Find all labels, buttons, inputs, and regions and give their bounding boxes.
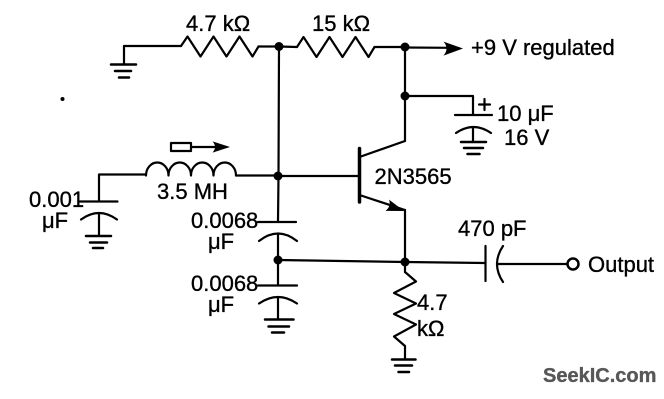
capacitor C4 10 uF polarized — [455, 115, 492, 133]
wire node G to node F — [278, 260, 405, 262]
wire node C down to collector — [404, 96, 406, 141]
tuning arrow of L1 — [191, 141, 230, 152]
wire R2 to node B — [375, 46, 406, 48]
stray dot mark — [61, 97, 65, 101]
capacitor C1 0.001 uF — [80, 202, 118, 220]
wire node G to C3 — [277, 260, 279, 284]
svg-text:kΩ: kΩ — [417, 316, 444, 341]
resistor R3 4.7 kOhm vertical — [394, 272, 416, 346]
wire node A down to node E and C2 — [278, 47, 279, 222]
output terminal circle — [568, 259, 579, 270]
ground G2 below C4 — [461, 142, 486, 154]
svg-text:15 kΩ: 15 kΩ — [312, 11, 370, 36]
node C junction (405,96) — [401, 92, 410, 101]
wire R3 to ground — [404, 346, 406, 359]
svg-text:2N3565: 2N3565 — [375, 164, 452, 189]
svg-text:μF: μF — [208, 229, 234, 254]
wire L1 left to C1 — [99, 175, 146, 201]
svg-text:470 pF: 470 pF — [458, 216, 527, 241]
wire C2 to node G — [277, 235, 279, 261]
wire node C to capacitor C4 — [405, 96, 473, 114]
svg-text:3.5 MH: 3.5 MH — [157, 179, 228, 204]
svg-text:16 V: 16 V — [504, 125, 550, 150]
node E junction (278,176) — [274, 172, 283, 181]
wire R1 to node A — [259, 45, 280, 47]
wire L1 to node E — [236, 174, 278, 176]
svg-text:4.7: 4.7 — [417, 290, 448, 315]
wire emitter down to node F — [404, 210, 406, 262]
svg-text:Output: Output — [588, 252, 654, 277]
svg-text:μF: μF — [208, 292, 234, 317]
svg-text:4.7 kΩ: 4.7 kΩ — [186, 11, 250, 36]
wire node F to C5 — [405, 262, 485, 263]
wire C5 to output terminal — [498, 263, 568, 265]
node B junction (405,47) — [401, 43, 410, 52]
transistor Q1 2N3565 — [360, 141, 406, 211]
ground G4 below C3 — [265, 320, 294, 333]
wire ground to R1 — [124, 45, 181, 47]
inductor L1 — [146, 163, 236, 176]
wire C1 to ground — [98, 214, 100, 236]
capacitor C2 0.0068 uF — [258, 222, 297, 241]
svg-text:SeekIC.com: SeekIC.com — [543, 365, 656, 387]
ground G1 top-left — [111, 46, 136, 78]
slug tuning rectangle of L1 — [171, 143, 191, 151]
wire node A to R2 — [279, 45, 297, 48]
node G junction (278,260) — [274, 256, 283, 265]
resistor R1 4.7 kOhm — [181, 37, 259, 57]
node F junction (405,262) — [401, 258, 410, 267]
svg-text:+9 V regulated: +9 V regulated — [471, 35, 615, 60]
wire C3 to ground — [277, 298, 279, 319]
capacitor C3 0.0068 uF — [258, 286, 297, 304]
wire base to node E — [278, 175, 360, 177]
arrow to +9V supply — [405, 42, 463, 56]
wire node F to R3 — [404, 262, 406, 272]
ground G5 below R3 — [392, 360, 416, 373]
ground G3 below C1 — [86, 236, 111, 248]
capacitor C5 470 pF — [486, 246, 504, 282]
plus sign of C4 — [479, 99, 490, 110]
wire node B down to node C — [404, 47, 406, 96]
node A junction (279,46) — [275, 42, 284, 51]
svg-text:μF: μF — [42, 208, 68, 233]
svg-text:10 μF: 10 μF — [497, 101, 554, 126]
wire C4 to ground — [472, 128, 474, 143]
resistor R2 15 kOhm — [297, 37, 375, 57]
